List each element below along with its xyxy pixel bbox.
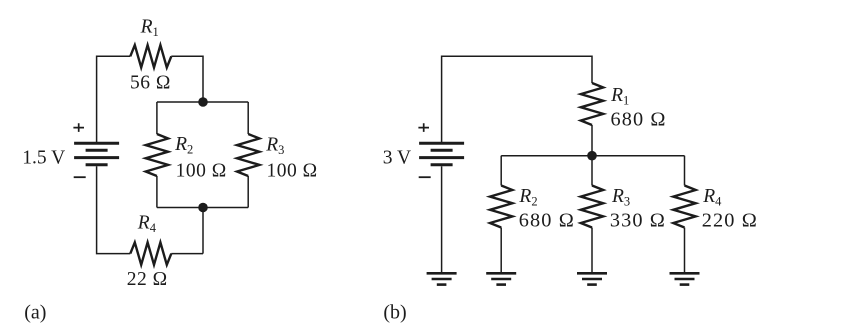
battery plus sign (circuit b) xyxy=(418,123,429,132)
ground symbol: R3 branch (circuit b) xyxy=(577,273,607,284)
resistor R3 (330 ohm, vertical, circuit b) xyxy=(581,186,603,228)
battery minus sign (circuit b) xyxy=(419,176,431,178)
svg-text:100 Ω: 100 Ω xyxy=(176,160,227,181)
wire: R3 branch upper stub (circuit b) xyxy=(591,156,593,186)
wire: circuit b, battery top to R1 top xyxy=(442,56,592,143)
battery 3 V (circuit b) plates xyxy=(419,143,464,165)
wire: bottom node descent (circuit a) xyxy=(202,208,204,254)
wire: node rail (circuit b) xyxy=(501,155,684,157)
node dot: bottom junction (circuit a) xyxy=(198,203,208,213)
wire: R2 branch lower stub (circuit b) xyxy=(500,228,502,273)
svg-text:1.5 V: 1.5 V xyxy=(22,147,65,168)
wire: right branch lower stub (circuit a) xyxy=(247,176,249,208)
ground symbol: battery negative (circuit b) xyxy=(427,273,457,284)
svg-text:330 Ω: 330 Ω xyxy=(610,209,666,231)
svg-text:680 Ω: 680 Ω xyxy=(611,109,667,131)
wire: right branch upper stub (circuit a) xyxy=(247,102,249,134)
svg-text:680 Ω: 680 Ω xyxy=(519,209,575,231)
svg-text:R2: R2 xyxy=(518,186,537,209)
resistor R4 (220 ohm, vertical, circuit b) xyxy=(673,186,695,228)
wire: left branch lower stub (circuit a) xyxy=(156,176,158,208)
wire: battery bottom to ground (circuit b) xyxy=(441,166,443,272)
svg-text:56 Ω: 56 Ω xyxy=(130,73,171,94)
svg-text:(a): (a) xyxy=(24,302,46,324)
resistor R3 (100 ohm, vertical, circuit a) xyxy=(237,134,259,176)
wire: circuit a, left loop top (battery top to R1 left) xyxy=(97,56,131,143)
svg-text:100 Ω: 100 Ω xyxy=(267,161,318,182)
ground symbol: R4 branch (circuit b) xyxy=(670,273,700,284)
resistor R1 (680 ohm, vertical, circuit b) xyxy=(581,83,603,125)
wire: top rail of parallel section (circuit a) xyxy=(157,101,248,103)
resistor R4 (22 ohm, horizontal, bottom of circuit a) xyxy=(130,242,171,264)
resistor R1 (56 ohm, horizontal, top of circuit a) xyxy=(130,45,171,67)
wire: R4 right to bottom node (circuit a) xyxy=(171,253,203,255)
resistor R2 (680 ohm, vertical, circuit b) xyxy=(490,186,512,228)
battery 1.5 V (circuit a) plates xyxy=(74,143,119,165)
wire: left branch upper stub (circuit a) xyxy=(156,102,158,134)
battery plus sign (circuit a) xyxy=(73,123,84,132)
node dot: top junction (circuit a) xyxy=(198,97,208,107)
wire: R2 branch upper stub (circuit b) xyxy=(500,156,502,186)
wire: R4 branch lower stub (circuit b) xyxy=(684,228,686,273)
svg-text:220 Ω: 220 Ω xyxy=(702,209,758,231)
wire: battery bottom to R4 left (circuit a) xyxy=(97,166,131,253)
svg-text:R1: R1 xyxy=(610,85,629,108)
svg-text:R2: R2 xyxy=(174,134,193,157)
svg-text:(b): (b) xyxy=(383,302,406,324)
battery minus sign (circuit a) xyxy=(74,176,86,178)
svg-text:22 Ω: 22 Ω xyxy=(127,269,168,290)
ground symbol: R2 branch (circuit b) xyxy=(486,273,516,284)
wire: bottom rail of parallel section (circuit a) xyxy=(157,207,248,209)
wire: R4 branch upper stub (circuit b) xyxy=(684,156,686,186)
wire: R3 branch lower stub (circuit b) xyxy=(591,228,593,273)
svg-text:R1: R1 xyxy=(140,16,159,39)
svg-text:R3: R3 xyxy=(611,186,630,209)
node dot: junction of R1,R2,R3,R4 (circuit b) xyxy=(587,151,597,161)
svg-text:3 V: 3 V xyxy=(383,147,411,168)
wire: R1 right to top node descent xyxy=(171,56,203,102)
svg-text:R4: R4 xyxy=(137,213,157,236)
wire: R1 bottom to node (circuit b) xyxy=(591,125,593,156)
svg-text:R3: R3 xyxy=(265,134,284,157)
svg-text:R4: R4 xyxy=(702,186,722,209)
resistor R2 (100 ohm, vertical, circuit a) xyxy=(146,134,168,176)
